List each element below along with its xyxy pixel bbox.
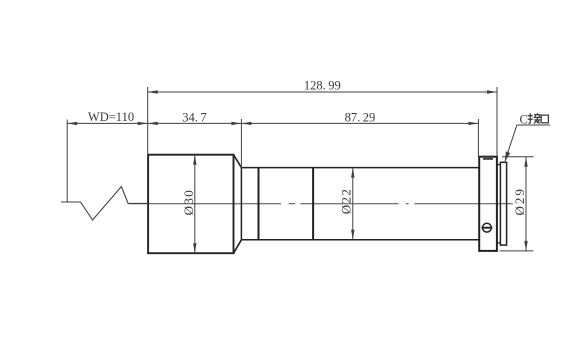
label C接口 with leader — [505, 113, 550, 163]
glyph 接 — [528, 113, 541, 123]
ring line 1 — [258, 168, 260, 240]
svg-text:87. 29: 87. 29 — [345, 110, 376, 124]
tube Φ22 outline — [241, 168, 479, 240]
barrel Φ30 outline — [148, 155, 233, 254]
dimension 128.99 — [148, 79, 497, 157]
svg-text:34. 7: 34. 7 — [182, 110, 206, 124]
dimension Φ22 — [339, 168, 355, 240]
set screw — [482, 223, 493, 232]
svg-text:WD=110: WD=110 — [88, 110, 134, 124]
neck steps — [497, 165, 501, 243]
dimension 34.7 — [148, 110, 242, 167]
svg-text:Ø22: Ø22 — [339, 188, 354, 215]
dimension Φ30 — [181, 155, 196, 254]
svg-text:C: C — [520, 113, 528, 127]
centerline — [129, 203, 513, 205]
dimension Φ29 — [499, 157, 533, 251]
glyph 口 — [541, 115, 548, 123]
dimension WD=110 — [67, 110, 148, 202]
svg-text:Ø30: Ø30 — [181, 189, 196, 216]
dimension 87.29 — [241, 110, 478, 156]
cylinder inner tick — [483, 158, 493, 160]
C-mount flange plate — [500, 162, 506, 245]
taper shoulder — [234, 155, 242, 254]
object-plane break zigzag — [61, 187, 148, 221]
svg-text:Ø29: Ø29 — [512, 187, 527, 215]
ring line 2 — [312, 168, 314, 240]
svg-text:128. 99: 128. 99 — [304, 79, 341, 93]
mount cylinder Φ29 — [479, 157, 497, 251]
